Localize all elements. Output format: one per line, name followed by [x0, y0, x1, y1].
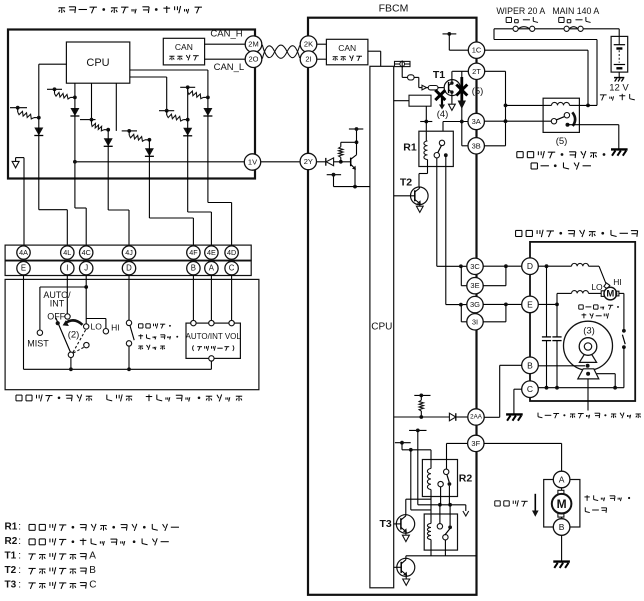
- svg-text:FBCM: FBCM: [379, 3, 409, 15]
- svg-text:2Y: 2Y: [304, 157, 313, 166]
- svg-text:2AA: 2AA: [470, 414, 483, 421]
- svg-text:R2: R2: [459, 473, 473, 485]
- svg-text:B: B: [559, 522, 565, 532]
- svg-text:M: M: [557, 497, 567, 511]
- svg-text:1V: 1V: [248, 158, 257, 167]
- svg-text:T2: T2: [400, 177, 412, 189]
- svg-text::: :: [18, 565, 21, 576]
- svg-text:CPU: CPU: [371, 322, 392, 333]
- svg-text:2M: 2M: [248, 40, 258, 49]
- svg-text:AUTO/INT VOL: AUTO/INT VOL: [186, 332, 242, 341]
- svg-text:J: J: [84, 264, 88, 273]
- svg-text:R2: R2: [5, 536, 18, 547]
- svg-text:4J: 4J: [125, 248, 133, 257]
- svg-text:CAN: CAN: [338, 43, 356, 53]
- svg-text:M: M: [606, 288, 614, 299]
- svg-text:D: D: [126, 264, 132, 273]
- svg-text:INT: INT: [50, 298, 65, 308]
- svg-text:CPU: CPU: [86, 57, 109, 69]
- svg-text:R1: R1: [5, 522, 18, 533]
- svg-text:OFF: OFF: [47, 311, 65, 321]
- svg-text:C: C: [229, 264, 235, 273]
- svg-text:4D: 4D: [227, 248, 236, 257]
- svg-text:T2: T2: [5, 565, 17, 576]
- svg-text:3A: 3A: [472, 117, 481, 126]
- svg-text:4C: 4C: [82, 248, 91, 257]
- svg-text:3E: 3E: [470, 281, 479, 290]
- svg-text:B: B: [527, 360, 533, 370]
- svg-text:B: B: [89, 565, 96, 576]
- svg-text:(5): (5): [472, 86, 484, 97]
- svg-text:B: B: [191, 264, 196, 273]
- svg-text:(3): (3): [583, 325, 595, 336]
- svg-text:A: A: [89, 551, 96, 562]
- svg-text:LO: LO: [91, 321, 103, 331]
- svg-text:C: C: [527, 384, 533, 394]
- svg-text:2T: 2T: [472, 67, 481, 76]
- svg-text:4A: 4A: [19, 248, 28, 257]
- svg-text:4E: 4E: [207, 248, 216, 257]
- svg-text:T3: T3: [379, 518, 391, 530]
- svg-text:2O: 2O: [248, 55, 258, 64]
- svg-text::: :: [18, 580, 21, 591]
- svg-text:1C: 1C: [472, 46, 482, 55]
- svg-text:HI: HI: [111, 322, 120, 332]
- svg-text:(5): (5): [556, 136, 568, 147]
- svg-text:T1: T1: [5, 551, 17, 562]
- svg-text:E: E: [527, 299, 533, 309]
- svg-text:HI: HI: [613, 277, 622, 287]
- svg-text:12 V: 12 V: [609, 83, 629, 94]
- svg-text:MAIN 140 A: MAIN 140 A: [552, 6, 599, 16]
- svg-text:(4): (4): [437, 109, 449, 120]
- svg-text:A: A: [559, 475, 565, 485]
- svg-text:3G: 3G: [470, 300, 480, 309]
- svg-text:E: E: [21, 264, 26, 273]
- svg-text:T1: T1: [433, 69, 445, 81]
- svg-text:3B: 3B: [472, 141, 481, 150]
- svg-text:C: C: [89, 580, 96, 591]
- svg-text:4F: 4F: [189, 248, 198, 257]
- svg-text:(2): (2): [68, 329, 80, 340]
- svg-text:MIST: MIST: [27, 338, 49, 348]
- svg-text:T3: T3: [5, 580, 17, 591]
- svg-text:4L: 4L: [63, 248, 71, 257]
- svg-text:2I: 2I: [305, 55, 311, 64]
- svg-text:D: D: [527, 261, 533, 271]
- svg-text::: :: [18, 536, 21, 547]
- svg-text:2K: 2K: [304, 40, 313, 49]
- svg-text:WIPER 20 A: WIPER 20 A: [496, 6, 545, 16]
- svg-text:R1: R1: [403, 142, 417, 154]
- svg-text::: :: [18, 551, 21, 562]
- svg-text:3F: 3F: [471, 439, 480, 448]
- svg-text:CAN_H: CAN_H: [210, 28, 242, 39]
- svg-text::: :: [18, 522, 21, 533]
- svg-text:CAN_L: CAN_L: [214, 62, 245, 73]
- svg-text:3I: 3I: [472, 317, 478, 326]
- svg-text:3C: 3C: [470, 262, 480, 271]
- svg-text:CAN: CAN: [175, 42, 193, 52]
- svg-text:LO: LO: [591, 282, 603, 292]
- svg-text:I: I: [66, 264, 68, 273]
- svg-text:A: A: [209, 264, 215, 273]
